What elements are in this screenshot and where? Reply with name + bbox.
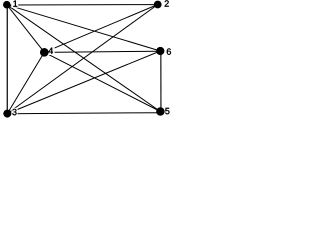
node 5 — [156, 107, 165, 116]
node 6 — [156, 47, 164, 55]
node 4 — [40, 48, 49, 57]
label 3 background — [11, 108, 17, 116]
edge 1-4 — [7, 5, 45, 53]
edge 4-5 — [44, 52, 160, 111]
edge 1-6 — [7, 5, 161, 51]
label 4 — [48, 48, 53, 54]
label 6 background — [165, 48, 171, 56]
edge 3-6 — [7, 51, 160, 114]
edge 2-3 — [7, 5, 157, 114]
node 2 — [154, 1, 162, 9]
label 5 background — [165, 107, 171, 115]
edge 5-6 — [160, 51, 162, 112]
label 1 — [13, 1, 17, 7]
label 6 — [167, 48, 171, 54]
label 2 background — [163, 0, 169, 7]
edge 3-5 — [7, 113, 160, 114]
label 5 — [165, 108, 169, 114]
label 1 background — [11, 0, 18, 8]
edge 2-4 — [44, 5, 157, 53]
edge 4-6 — [44, 51, 160, 52]
node 3 — [3, 110, 11, 118]
node 1 — [3, 1, 11, 9]
label 3 — [12, 109, 16, 115]
edge 3-4 — [7, 52, 44, 113]
label 4 background — [48, 47, 55, 55]
edge 1-2 — [7, 4, 158, 6]
edge 1-5 — [7, 5, 161, 112]
edge 1-3 — [6, 5, 8, 114]
label 2 — [165, 0, 169, 6]
